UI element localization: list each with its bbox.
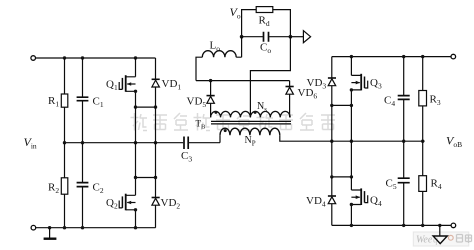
node A [240, 35, 244, 39]
wire node A up and across to Rd [242, 10, 257, 37]
wire mid rail down to Q2/VD2 (two verticals) [136, 143, 156, 178]
polarity dot Np [224, 129, 227, 132]
node right mid rail VD3 [330, 140, 333, 143]
terminal output bottom-right [451, 223, 456, 228]
node right mid rail C4 [402, 140, 405, 143]
capacitor C2 [82, 143, 84, 183]
terminal output top-right [451, 54, 456, 59]
terminal input bottom-left [31, 225, 36, 230]
svg-text:Ns: Ns [257, 101, 267, 114]
resistor R1 [64, 58, 66, 94]
capacitor C4 [403, 57, 405, 96]
wire Np right lead to right mid rail [280, 135, 425, 141]
wire Q3-source to VD3-anode [332, 104, 352, 106]
diode VD2 [155, 178, 157, 228]
svg-text:C5: C5 [386, 178, 397, 192]
wire top rail right [332, 56, 451, 58]
wire switch node down to mid rail (two verticals) [136, 107, 156, 143]
node right mid rail Q3 [350, 140, 353, 143]
diode VD1 [155, 58, 157, 107]
svg-text:Q1: Q1 [106, 79, 118, 93]
svg-text:Lo: Lo [210, 40, 221, 54]
svg-text:Vo: Vo [230, 5, 241, 21]
resistor Rd [256, 7, 273, 13]
wire mid rail left [65, 142, 184, 144]
svg-text:R1: R1 [48, 95, 59, 109]
diode VD4 [331, 177, 333, 226]
wire Q2-drain VD2-cathode joint [136, 177, 156, 179]
wire top rail left [36, 57, 156, 59]
svg-text:Q4: Q4 [370, 195, 382, 209]
svg-text:R4: R4 [431, 178, 442, 192]
svg-text:NP: NP [245, 135, 256, 148]
terminal input top-left [31, 56, 36, 61]
wire Q4-drain VD4-cathode joint [332, 176, 352, 178]
capacitor Co [242, 36, 263, 38]
transistor Q3 [351, 57, 361, 76]
svg-text:Vin: Vin [24, 135, 37, 151]
transistor Q1 [126, 58, 136, 77]
transistor Q2 [126, 178, 136, 196]
wire Np left lead [219, 135, 221, 143]
wire bottom rail right [332, 224, 451, 226]
wire Q1-source to VD1-anode [136, 106, 156, 108]
watermark centre row (grey CJK-like glyphs) [131, 113, 148, 131]
svg-text:Rd: Rd [259, 15, 270, 29]
svg-text:C4: C4 [384, 95, 395, 109]
capacitor C1 [82, 58, 84, 97]
svg-text:VD1: VD1 [162, 78, 182, 92]
resistor R2 [64, 143, 66, 178]
diode VD3 [331, 57, 333, 106]
node right mid rail R3 [421, 140, 424, 143]
resistor R3 [422, 57, 424, 91]
svg-text:VD6: VD6 [298, 87, 318, 101]
ground right (chassis triangle) [439, 225, 441, 235]
node B [289, 35, 293, 39]
transformer core TB [211, 121, 291, 124]
svg-text:R3: R3 [430, 94, 441, 108]
wire bottom rail left [36, 227, 156, 229]
wire Rd to node B [273, 10, 291, 37]
ground left [49, 228, 51, 238]
capacitor C5 [403, 141, 405, 178]
svg-text:Q2: Q2 [106, 197, 118, 211]
svg-text:VD2: VD2 [161, 197, 181, 211]
wire rectifier cathode bus [196, 80, 290, 82]
svg-text:C1: C1 [93, 96, 104, 110]
wire mid rail down to Q4/VD4 (two verticals) [332, 141, 352, 177]
output arrow triangle [290, 36, 303, 38]
svg-text:Wee: Wee [416, 235, 433, 246]
svg-text:VD4: VD4 [306, 195, 326, 209]
svg-text:C3: C3 [181, 150, 192, 164]
wire centre tap to node B [250, 37, 290, 118]
svg-text:VD3: VD3 [307, 77, 327, 91]
svg-text:Q3: Q3 [370, 77, 382, 91]
svg-text:VD5: VD5 [187, 96, 207, 110]
transformer primary Np [220, 128, 280, 135]
node top rail Q1 drain [134, 56, 137, 59]
resistor R4 [422, 141, 424, 176]
svg-text:C2: C2 [93, 182, 104, 196]
transistor Q4 [351, 177, 361, 190]
polarity dot Ns centre [254, 111, 257, 114]
capacitor C3 [184, 137, 188, 150]
svg-text:Co: Co [260, 42, 271, 56]
node top rail C1 [81, 56, 84, 59]
polarity dot Ns left [214, 111, 217, 114]
watermark bottom-right box [413, 232, 469, 246]
diode VD5 [210, 81, 212, 118]
svg-text:VoB: VoB [446, 134, 462, 150]
wire right switch node down to mid rail (two verticals) [332, 105, 352, 141]
diode VD6 [289, 81, 291, 118]
transformer secondary Ns [211, 111, 291, 117]
svg-text:R2: R2 [48, 182, 59, 196]
node top rail R1 [63, 56, 66, 59]
inductor Lo [196, 57, 202, 80]
